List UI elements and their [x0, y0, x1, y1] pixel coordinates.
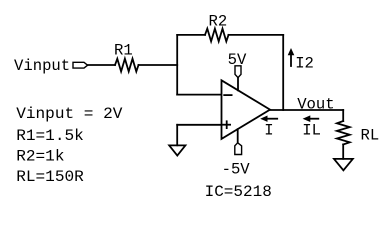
current arrow IL: [309, 118, 319, 120]
load resistor RL: [342, 110, 344, 121]
svg-text:Vinput = 2V: Vinput = 2V: [16, 105, 123, 123]
resistor R1: [115, 59, 139, 72]
wire: [282, 35, 284, 110]
svg-text:Vout: Vout: [297, 96, 334, 114]
svg-text:RL: RL: [361, 126, 380, 144]
svg-text:IC=5218: IC=5218: [205, 183, 272, 201]
svg-text:R2: R2: [209, 13, 228, 31]
svg-text:I2: I2: [295, 55, 314, 73]
svg-text:R1: R1: [114, 41, 133, 59]
wire: [270, 109, 343, 111]
current arrow I: [266, 118, 277, 120]
current arrow I2: [290, 55, 292, 66]
wire: [176, 125, 178, 146]
svg-text:IL: IL: [302, 121, 321, 139]
ground: [169, 145, 185, 155]
svg-text:Vinput: Vinput: [14, 57, 70, 75]
wire: [88, 64, 115, 66]
wire: [176, 35, 178, 95]
wire: [139, 64, 178, 66]
-5V port: [237, 129, 239, 142]
op-amp U1: [222, 80, 271, 139]
wire: [177, 94, 221, 96]
svg-text:I: I: [264, 121, 273, 139]
svg-text:RL=150R: RL=150R: [16, 168, 84, 186]
svg-text:R1=1.5k: R1=1.5k: [16, 127, 84, 145]
ground: [334, 159, 353, 170]
resistor R2: [177, 34, 205, 36]
wire: [177, 124, 221, 126]
Vinput port: [73, 62, 88, 68]
svg-text:R2=1k: R2=1k: [16, 148, 64, 166]
svg-text:-5V: -5V: [222, 160, 251, 178]
